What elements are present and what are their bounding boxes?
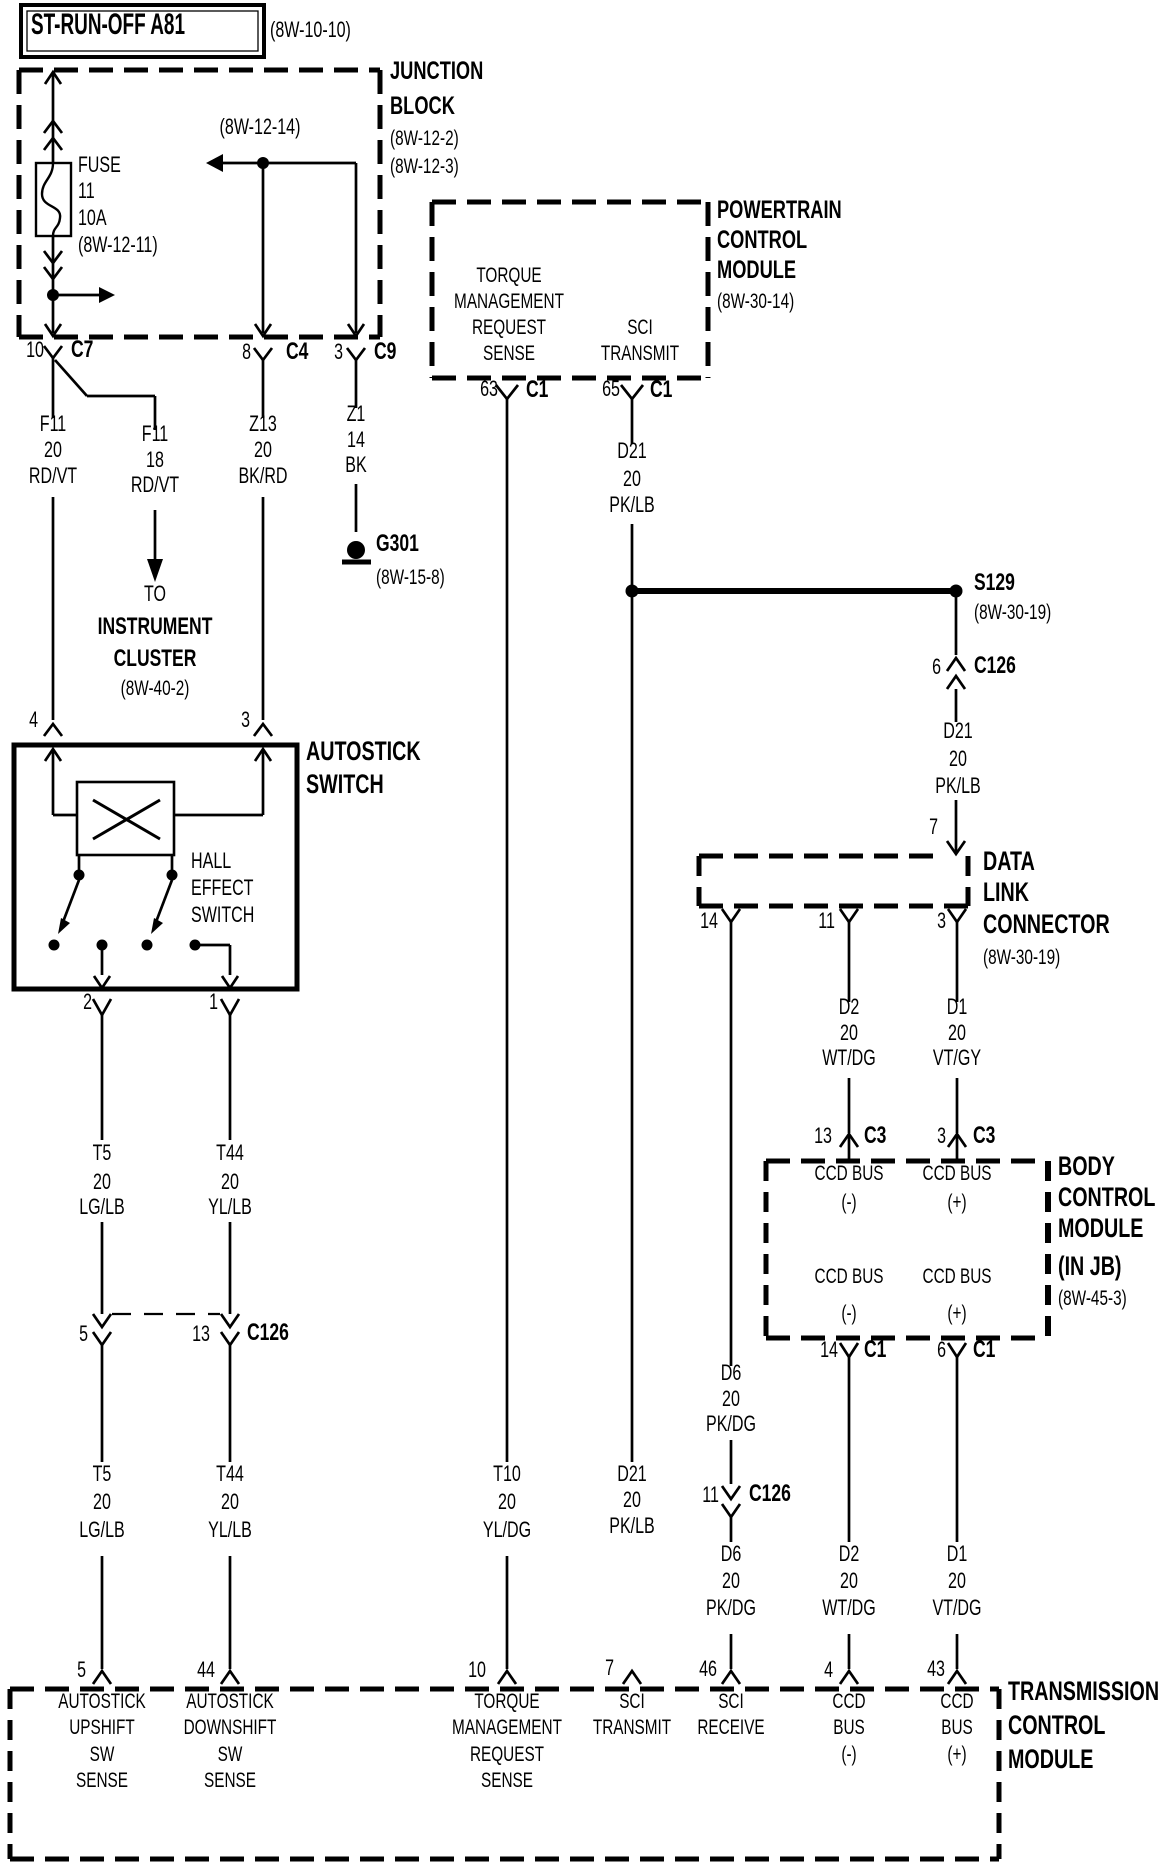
wire Z13 20 BK/RD from C4 to autostick switch pin 3 <box>262 360 265 720</box>
splice junction dot at S129 bus <box>626 585 639 598</box>
svg-text:REQUEST: REQUEST <box>470 1743 544 1766</box>
data link connector pin 11 <box>818 908 858 933</box>
label HALL EFFECT SWITCH <box>191 848 254 927</box>
svg-text:3: 3 <box>937 1123 946 1148</box>
connector C1 pin 6 <box>937 1336 995 1363</box>
label D2 20 WT/DG upper <box>822 994 876 1070</box>
svg-text:C1: C1 <box>650 376 672 403</box>
switch contact stub left <box>74 855 85 881</box>
svg-text:ST-RUN-OFF A81: ST-RUN-OFF A81 <box>31 8 185 41</box>
label TORQUE MANAGEMENT REQUEST SENSE (TCM) <box>452 1690 562 1792</box>
svg-text:D2: D2 <box>839 994 860 1019</box>
svg-text:T10: T10 <box>493 1461 521 1486</box>
svg-text:3: 3 <box>937 908 946 933</box>
label TORQUE MANAGEMENT REQUEST SENSE (PCM) <box>454 264 564 365</box>
svg-text:(IN JB): (IN JB) <box>1058 1251 1122 1281</box>
svg-text:(8W-30-19): (8W-30-19) <box>983 946 1060 969</box>
svg-text:MANAGEMENT: MANAGEMENT <box>452 1716 562 1739</box>
svg-text:SENSE: SENSE <box>204 1769 256 1792</box>
label T5 20 LG/LB upper <box>79 1140 125 1219</box>
svg-text:(+): (+) <box>947 1191 966 1214</box>
svg-text:20: 20 <box>93 1489 111 1514</box>
svg-text:BUS: BUS <box>941 1716 973 1739</box>
svg-text:SENSE: SENSE <box>76 1769 128 1792</box>
svg-text:6: 6 <box>932 654 941 679</box>
svg-text:CONNECTOR: CONNECTOR <box>983 909 1110 939</box>
connector C1 pin 65 <box>602 376 672 403</box>
TCM pin 10 <box>468 1657 516 1684</box>
svg-text:LG/LB: LG/LB <box>79 1517 125 1542</box>
svg-text:D21: D21 <box>617 1461 647 1486</box>
label Z13 20 BK/RD <box>238 411 287 488</box>
svg-text:44: 44 <box>197 1657 215 1682</box>
TCM pin 43 <box>927 1656 966 1684</box>
svg-text:C126: C126 <box>749 1480 791 1507</box>
svg-text:(-): (-) <box>841 1743 856 1766</box>
svg-text:T5: T5 <box>93 1140 112 1165</box>
svg-text:T44: T44 <box>216 1461 244 1486</box>
label D6 20 PK/DG upper <box>706 1360 756 1436</box>
svg-text:20: 20 <box>623 1487 641 1512</box>
svg-text:SW: SW <box>218 1743 243 1766</box>
svg-text:CLUSTER: CLUSTER <box>114 645 197 672</box>
svg-text:BUS: BUS <box>833 1716 865 1739</box>
svg-text:SCI: SCI <box>627 316 653 339</box>
wire T44 20 YL/LB upper <box>229 1015 232 1314</box>
wire to junction block exit pin 8 <box>255 163 271 336</box>
label D6 20 PK/DG lower <box>706 1541 756 1620</box>
svg-text:20: 20 <box>949 746 967 771</box>
wire D1 from DLC pin 3 <box>956 922 959 1133</box>
svg-text:S129: S129 <box>974 569 1015 596</box>
svg-text:DATA: DATA <box>983 846 1035 876</box>
powertrain control module dashed outline <box>432 202 708 378</box>
svg-text:20: 20 <box>498 1489 516 1514</box>
svg-text:AUTOSTICK: AUTOSTICK <box>186 1690 274 1713</box>
connector C4 pin 8 <box>242 338 309 365</box>
connector chevrons on feed wire <box>44 121 62 150</box>
splice bus wire to S129 <box>632 588 956 594</box>
powertrain control module label <box>717 196 842 313</box>
label T5 20 LG/LB lower <box>79 1461 125 1542</box>
label CCD BUS minus output <box>815 1265 884 1325</box>
label D1 20 VT/GY upper <box>933 994 981 1070</box>
svg-text:Z13: Z13 <box>249 411 277 436</box>
label CCD BUS minus (TCM) <box>832 1690 865 1766</box>
svg-text:REQUEST: REQUEST <box>472 316 546 339</box>
svg-text:T44: T44 <box>216 1140 244 1165</box>
svg-text:20: 20 <box>221 1169 239 1194</box>
svg-text:CCD BUS: CCD BUS <box>815 1162 884 1185</box>
connector chevrons below fuse <box>44 251 62 279</box>
label Z1 14 BK <box>345 401 367 477</box>
ground G301 <box>342 530 445 589</box>
svg-text:46: 46 <box>699 1656 717 1681</box>
svg-text:T5: T5 <box>93 1461 112 1486</box>
label AUTOSTICK UPSHIFT SW SENSE <box>58 1690 146 1792</box>
svg-text:(8W-12-11): (8W-12-11) <box>78 232 158 257</box>
svg-text:YL/LB: YL/LB <box>208 1517 252 1542</box>
TCM pin 5 <box>77 1657 111 1684</box>
svg-text:PK/LB: PK/LB <box>935 773 981 798</box>
data link connector dashed outline <box>699 856 968 906</box>
svg-text:(8W-30-19): (8W-30-19) <box>974 601 1051 624</box>
label CCD BUS plus (TCM) <box>940 1690 973 1766</box>
svg-text:RD/VT: RD/VT <box>131 472 179 497</box>
connector C3 pin 3 <box>937 1122 995 1161</box>
svg-text:20: 20 <box>254 437 272 462</box>
switch contact to pin 2 <box>94 940 110 989</box>
svg-text:3: 3 <box>241 707 250 732</box>
wire D21 from PCM pin 65 <box>631 399 634 1462</box>
svg-text:F11: F11 <box>40 411 67 436</box>
data link connector pin 3 <box>937 908 966 933</box>
svg-text:20: 20 <box>623 466 641 491</box>
svg-text:CCD: CCD <box>940 1690 973 1713</box>
data link connector label <box>983 846 1110 969</box>
body control module label <box>1058 1151 1155 1310</box>
svg-text:CONTROL: CONTROL <box>717 226 807 254</box>
junction block dashed outline <box>19 70 380 337</box>
inline connector C126 pin 13 <box>192 1314 289 1346</box>
label CCD BUS plus input <box>923 1162 992 1214</box>
svg-text:PK/DG: PK/DG <box>706 1595 756 1620</box>
svg-text:43: 43 <box>927 1656 945 1681</box>
svg-text:20: 20 <box>840 1568 858 1593</box>
svg-text:6: 6 <box>937 1337 946 1362</box>
svg-text:SW: SW <box>90 1743 115 1766</box>
label SCI TRANSMIT (PCM) <box>601 316 679 365</box>
svg-text:20: 20 <box>722 1386 740 1411</box>
switch arm left with arrowhead <box>49 880 80 951</box>
svg-text:1: 1 <box>209 989 218 1014</box>
svg-text:TRANSMIT: TRANSMIT <box>601 342 679 365</box>
svg-text:C1: C1 <box>973 1336 995 1363</box>
body control module dashed outline <box>766 1161 1048 1338</box>
svg-text:14: 14 <box>700 908 718 933</box>
label D21 20 PK/LB upper <box>609 438 655 517</box>
svg-text:PK/LB: PK/LB <box>609 1513 655 1538</box>
svg-text:INSTRUMENT: INSTRUMENT <box>98 613 213 640</box>
svg-text:VT/GY: VT/GY <box>933 1045 981 1070</box>
connector C1 pin 14 <box>820 1336 886 1363</box>
autostick switch pin 4 <box>29 707 62 736</box>
label D1 20 VT/DG lower <box>932 1541 981 1620</box>
svg-text:FUSE: FUSE <box>78 152 121 177</box>
hall effect sensor block with X <box>77 782 174 855</box>
power feed box ST-RUN-OFF A81 <box>21 5 264 57</box>
TCM pin 7 <box>605 1655 641 1684</box>
label SCI RECEIVE (TCM) <box>697 1690 764 1739</box>
svg-text:MANAGEMENT: MANAGEMENT <box>454 290 564 313</box>
svg-text:F11: F11 <box>142 421 169 446</box>
svg-text:LG/LB: LG/LB <box>79 1194 125 1219</box>
wire T5 20 LG/LB upper <box>101 1015 104 1314</box>
svg-text:TRANSMIT: TRANSMIT <box>593 1716 671 1739</box>
svg-text:13: 13 <box>192 1321 210 1346</box>
svg-text:14: 14 <box>347 427 365 452</box>
svg-text:HALL: HALL <box>191 848 231 873</box>
svg-text:UPSHIFT: UPSHIFT <box>69 1716 135 1739</box>
junction dot with tap arrow right <box>47 287 115 303</box>
wire T44 20 YL/LB lower <box>229 1345 232 1669</box>
inline connector C126 pin 11 <box>702 1480 791 1517</box>
page reference (8W-10-10) <box>270 17 351 42</box>
svg-text:18: 18 <box>146 447 164 472</box>
svg-text:(8W-12-3): (8W-12-3) <box>390 155 459 178</box>
switch pin 1 connector <box>209 989 239 1015</box>
wire Z1 14 BK from C9 to ground <box>355 360 358 532</box>
svg-text:(-): (-) <box>841 1302 856 1325</box>
label D21 20 PK/LB lower <box>609 1461 655 1538</box>
svg-text:5: 5 <box>79 1321 88 1346</box>
connector C7 pin 10 <box>26 336 93 363</box>
svg-text:65: 65 <box>602 376 620 401</box>
svg-text:11: 11 <box>702 1482 719 1507</box>
svg-text:MODULE: MODULE <box>1008 1744 1093 1774</box>
svg-text:C3: C3 <box>864 1122 886 1149</box>
svg-text:20: 20 <box>93 1169 111 1194</box>
TCM pin 4 <box>824 1657 858 1684</box>
svg-text:JUNCTION: JUNCTION <box>390 57 483 85</box>
svg-text:2: 2 <box>83 989 92 1014</box>
svg-text:D6: D6 <box>721 1541 742 1566</box>
svg-text:AUTOSTICK: AUTOSTICK <box>306 736 421 766</box>
svg-text:CCD BUS: CCD BUS <box>923 1265 992 1288</box>
svg-text:EFFECT: EFFECT <box>191 875 254 900</box>
svg-text:SWITCH: SWITCH <box>306 769 384 799</box>
svg-text:C1: C1 <box>526 376 548 403</box>
svg-text:SWITCH: SWITCH <box>191 902 254 927</box>
svg-text:C9: C9 <box>374 338 396 365</box>
label SCI TRANSMIT (TCM) <box>593 1690 671 1739</box>
svg-text:4: 4 <box>29 707 38 732</box>
svg-text:20: 20 <box>948 1568 966 1593</box>
svg-text:C126: C126 <box>974 652 1016 679</box>
wire D2 from DLC pin 11 <box>848 922 851 1133</box>
svg-text:(8W-12-2): (8W-12-2) <box>390 127 459 150</box>
svg-text:C7: C7 <box>71 336 93 363</box>
svg-text:10A: 10A <box>78 205 107 230</box>
switch pin 2 connector <box>83 989 111 1015</box>
svg-text:D1: D1 <box>947 1541 968 1566</box>
svg-text:14: 14 <box>820 1337 838 1362</box>
svg-text:(+): (+) <box>947 1302 966 1325</box>
inline connector C126 pin 6 <box>932 652 1016 689</box>
wire pin 4 into switch <box>45 749 77 815</box>
svg-text:C4: C4 <box>286 338 309 365</box>
svg-text:20: 20 <box>948 1020 966 1045</box>
svg-text:D6: D6 <box>721 1360 742 1385</box>
svg-text:WT/DG: WT/DG <box>822 1595 876 1620</box>
svg-text:C126: C126 <box>247 1319 289 1346</box>
connector C3 pin 13 <box>814 1122 886 1161</box>
svg-text:8: 8 <box>242 339 251 364</box>
svg-text:TORQUE: TORQUE <box>476 264 541 287</box>
label F11 18 RD/VT <box>131 421 179 497</box>
svg-text:D21: D21 <box>943 718 973 743</box>
wire D6 to TCM pin 46 <box>730 1517 733 1669</box>
svg-text:SCI: SCI <box>718 1690 744 1713</box>
svg-text:(8W-15-8): (8W-15-8) <box>376 566 445 589</box>
svg-text:7: 7 <box>605 1655 614 1680</box>
switch contact stub right <box>167 855 178 881</box>
svg-text:13: 13 <box>814 1123 832 1148</box>
TCM pin 46 <box>699 1656 740 1684</box>
transmission control module dashed outline <box>10 1689 999 1859</box>
wire F11 20 RD/VT from C7 to autostick switch pin 4 <box>52 358 55 720</box>
svg-text:LINK: LINK <box>983 877 1029 907</box>
junction block label <box>390 57 483 178</box>
wire to junction block exit pin 3 <box>348 163 364 336</box>
svg-text:D1: D1 <box>947 994 968 1019</box>
svg-text:PK/LB: PK/LB <box>609 492 655 517</box>
label T44 20 YL/LB lower <box>208 1461 252 1542</box>
svg-text:4: 4 <box>824 1657 833 1682</box>
label D21 20 PK/LB at DLC <box>935 718 981 798</box>
svg-text:SENSE: SENSE <box>481 1769 533 1792</box>
svg-text:CCD BUS: CCD BUS <box>923 1162 992 1185</box>
svg-text:CCD BUS: CCD BUS <box>815 1265 884 1288</box>
svg-text:(8W-45-3): (8W-45-3) <box>1058 1287 1127 1310</box>
svg-text:BODY: BODY <box>1058 1151 1115 1181</box>
svg-text:G301: G301 <box>376 530 419 557</box>
autostick switch pin 3 <box>241 707 272 736</box>
wire D2 from BCM to TCM pin 4 <box>848 1357 851 1669</box>
wire T5 20 LG/LB lower <box>101 1345 104 1669</box>
svg-text:(8W-40-2): (8W-40-2) <box>121 677 190 700</box>
feed arrow from (8W-12-14) <box>206 114 356 172</box>
svg-text:20: 20 <box>722 1568 740 1593</box>
svg-text:(8W-10-10): (8W-10-10) <box>270 17 351 42</box>
switch contact to pin 1 <box>190 940 239 989</box>
fuse label FUSE 11 10A (8W-12-11) <box>78 152 158 257</box>
label CCD BUS plus output <box>923 1265 992 1325</box>
wire to instrument cluster with arrow <box>147 510 163 582</box>
svg-text:RD/VT: RD/VT <box>29 463 77 488</box>
svg-text:YL/DG: YL/DG <box>483 1517 531 1542</box>
data link connector pin 7 <box>929 814 965 854</box>
svg-text:BLOCK: BLOCK <box>390 92 455 120</box>
svg-text:D2: D2 <box>839 1541 860 1566</box>
wire branch F11 18 RD/VT <box>55 360 155 430</box>
wire D21 to data link connector pin 7 <box>955 689 958 852</box>
label F11 20 RD/VT <box>29 411 77 488</box>
svg-text:SCI: SCI <box>619 1690 645 1713</box>
svg-text:MODULE: MODULE <box>717 256 796 284</box>
label AUTOSTICK DOWNSHIFT SW SENSE <box>184 1690 277 1792</box>
svg-text:BK/RD: BK/RD <box>238 463 287 488</box>
switch arm right with arrowhead <box>142 880 173 951</box>
wire A81 feed with up arrow into junction block <box>45 72 61 163</box>
svg-text:CCD: CCD <box>832 1690 865 1713</box>
svg-text:BK: BK <box>345 452 367 477</box>
svg-text:20: 20 <box>44 437 62 462</box>
svg-text:10: 10 <box>468 1657 486 1682</box>
svg-text:PK/DG: PK/DG <box>706 1411 756 1436</box>
svg-text:TO: TO <box>144 581 166 606</box>
svg-text:3: 3 <box>334 339 343 364</box>
svg-text:CONTROL: CONTROL <box>1008 1710 1105 1740</box>
svg-text:VT/DG: VT/DG <box>932 1595 981 1620</box>
connector C126 dashed tie line <box>112 1313 220 1315</box>
wire D6 from DLC pin 14 <box>730 922 733 1484</box>
svg-text:(+): (+) <box>947 1743 966 1766</box>
transmission control module label <box>1008 1676 1159 1774</box>
svg-text:(8W-12-14): (8W-12-14) <box>220 114 301 139</box>
svg-text:POWERTRAIN: POWERTRAIN <box>717 196 842 224</box>
svg-text:20: 20 <box>840 1020 858 1045</box>
svg-text:63: 63 <box>480 376 498 401</box>
svg-text:(-): (-) <box>841 1191 856 1214</box>
connector C1 pin 63 <box>480 376 548 403</box>
svg-text:11: 11 <box>78 178 95 203</box>
inline connector C126 pin 5 <box>79 1314 111 1346</box>
wire from S129 to connector C126 pin 6 <box>955 591 958 655</box>
wire below fuse to connector C7 <box>52 236 55 333</box>
svg-text:WT/DG: WT/DG <box>822 1045 876 1070</box>
wire D1 from BCM to TCM pin 43 <box>956 1357 959 1669</box>
svg-text:YL/LB: YL/LB <box>208 1194 252 1219</box>
wire T10 from PCM pin 63 to TCM pin 10 <box>506 399 509 1669</box>
svg-text:20: 20 <box>221 1489 239 1514</box>
label TO INSTRUMENT CLUSTER (8W-40-2) <box>98 581 213 700</box>
wire pin 3 into switch <box>174 749 271 815</box>
splice S129 <box>950 569 1052 624</box>
svg-text:AUTOSTICK: AUTOSTICK <box>58 1690 146 1713</box>
svg-text:D21: D21 <box>617 438 647 463</box>
svg-text:TORQUE: TORQUE <box>474 1690 539 1713</box>
TCM pin 44 <box>197 1657 239 1684</box>
svg-text:CONTROL: CONTROL <box>1058 1182 1155 1212</box>
fuse 11 10A <box>36 163 71 236</box>
svg-text:MODULE: MODULE <box>1058 1213 1143 1243</box>
connector C9 pin 3 <box>334 338 396 365</box>
svg-text:7: 7 <box>929 814 938 839</box>
svg-text:5: 5 <box>77 1657 86 1682</box>
svg-text:C3: C3 <box>973 1122 995 1149</box>
svg-text:Z1: Z1 <box>347 401 366 426</box>
label T10 20 YL/DG <box>483 1461 531 1542</box>
autostick switch label <box>306 736 421 799</box>
svg-text:SENSE: SENSE <box>483 342 535 365</box>
svg-text:RECEIVE: RECEIVE <box>697 1716 764 1739</box>
autostick switch box <box>14 745 297 989</box>
svg-text:10: 10 <box>26 337 44 362</box>
svg-text:11: 11 <box>818 908 835 933</box>
svg-text:DOWNSHIFT: DOWNSHIFT <box>184 1716 277 1739</box>
svg-text:(8W-30-14): (8W-30-14) <box>717 290 794 313</box>
label CCD BUS minus input <box>815 1162 884 1214</box>
data link connector pin 14 <box>700 908 740 933</box>
down arrow at junction block exit pin 10 <box>45 324 61 336</box>
label T44 20 YL/LB upper <box>208 1140 252 1219</box>
svg-text:TRANSMISSION: TRANSMISSION <box>1008 1676 1159 1706</box>
label D2 20 WT/DG lower <box>822 1541 876 1620</box>
svg-text:C1: C1 <box>864 1336 886 1363</box>
